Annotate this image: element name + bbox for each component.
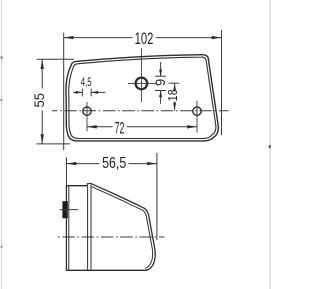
side view: left (rear) edge inner line	[68, 186, 70, 270]
dimension 9: top extension tick	[155, 75, 166, 77]
dimension 18: top extension tick	[169, 82, 180, 84]
dimension 102: right arrowhead	[212, 36, 222, 39]
lamp front view inner outline	[69, 57, 216, 138]
dimension 18: dimension line	[174, 83, 176, 88]
dimension 72: left arrowhead	[87, 125, 97, 128]
dimension 72: value label	[115, 119, 125, 138]
side view: stud centerline	[60, 209, 79, 211]
left hole vertical centerline	[86, 102, 88, 131]
side view: bottom edge	[66, 269, 147, 271]
svg-text:55: 55	[32, 93, 48, 107]
slot hole horizontal centerline	[128, 82, 157, 84]
dimension 9: bottom extension tick	[155, 90, 166, 92]
dimension 9: value label (rotated)	[152, 79, 168, 86]
side view: horizontal centerline	[58, 236, 165, 238]
dimension 72: dimension line	[87, 126, 113, 128]
side view: lens inner profile	[91, 186, 152, 268]
dimension 9: bottom leader with arrowhead	[160, 91, 162, 104]
dimension 56,5: dimension line	[67, 163, 100, 165]
dimension 102: dimension line	[64, 37, 133, 39]
side view: mounting stud (filled)	[62, 201, 67, 218]
dimension 55: top arrowhead	[41, 59, 44, 69]
scan artifact: dark specks on left edge	[1, 57, 3, 248]
dimension 102: value label	[135, 29, 154, 48]
dimension 4,5: left leader with arrowhead	[73, 91, 82, 93]
dimension 4,5: right leader with arrowhead	[91, 91, 105, 93]
left mounting hole	[83, 107, 91, 115]
side view: base/lens joint line B	[90, 185, 92, 271]
dimension 56,5: value label	[102, 154, 126, 172]
side view: step to lens corner	[87, 183, 90, 186]
dimension 102: right extension line	[221, 30, 223, 135]
dimension 9: top leader with arrowhead	[160, 62, 162, 76]
dimension 4,5: value label	[81, 77, 92, 90]
dimension 56,5: left arrowhead	[67, 162, 77, 165]
dimension 102: left arrowhead	[64, 36, 74, 39]
scan artifact: faint right edge line	[269, 0, 271, 289]
dimension 56,5: right arrowhead	[147, 162, 157, 165]
svg-text:72: 72	[115, 119, 125, 138]
dimension 56,5: left extension line	[66, 157, 68, 186]
right mounting hole	[193, 107, 201, 115]
dimension 4,5: left tangent extension tick	[81, 89, 83, 97]
dimension 55: top extension line	[37, 58, 75, 60]
svg-text:56,5: 56,5	[102, 154, 126, 172]
scan artifact: dark dot on right edge	[269, 145, 271, 148]
horizontal centerline through mounting holes	[52, 110, 229, 112]
svg-text:102: 102	[135, 29, 154, 48]
dimension 18: top arrowhead	[173, 83, 176, 91]
right hole vertical centerline	[196, 101, 198, 133]
svg-text:9: 9	[152, 79, 168, 86]
side view: top edge of base	[66, 185, 87, 187]
dimension 55: bottom arrowhead	[41, 134, 44, 144]
dimension 18: value label (rotated)	[166, 89, 180, 101]
svg-text:4,5: 4,5	[81, 77, 92, 90]
svg-text:18: 18	[166, 89, 180, 101]
center slot hole	[136, 78, 148, 90]
slot hole vertical centerline	[140, 48, 142, 102]
dimension 55: value label (rotated)	[32, 93, 48, 107]
side view: base/lens joint line A	[87, 186, 89, 270]
side view: left (rear) edge outer line	[65, 186, 67, 271]
dimension 55: dimension line	[41, 59, 43, 88]
dimension 72: right arrowhead	[187, 125, 197, 128]
side view: lens outer profile	[91, 183, 156, 270]
scan artifact: faint blue left edge line	[1, 0, 3, 289]
lamp front view outer outline	[66, 55, 218, 141]
dimension 102: left extension line	[63, 33, 65, 150]
dimension 4,5: right tangent extension tick	[90, 89, 92, 97]
dimension 18: bottom arrowhead	[173, 103, 176, 111]
dimension 55: bottom extension line	[37, 143, 71, 145]
dimension 56,5: right extension line	[156, 153, 158, 240]
